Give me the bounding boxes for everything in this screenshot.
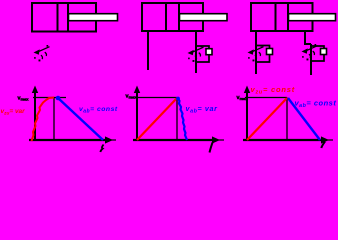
graph 1 vertical reference line: [53, 98, 55, 141]
cylinder C1 piston rod: [69, 14, 118, 21]
cylinder C2 body: [142, 3, 203, 31]
graph 1 blue deceleration line: [56, 96, 103, 140]
flow control valve V3 check square: [321, 49, 327, 55]
flow control valve V2 bypass loop: [256, 46, 270, 63]
cylinder C3 body: [251, 3, 313, 31]
graph 2 y-axis: [134, 86, 140, 142]
flow control valve V2 throttle arrow: [248, 45, 264, 61]
line from C3 right port with jog: [305, 31, 311, 44]
graph 2 vmax reference line: [135, 97, 177, 99]
graph 3 vmax reference line: [245, 97, 287, 99]
graph 2 vertical reference line: [176, 98, 178, 141]
graph 3 blue deceleration line: [288, 98, 320, 140]
graph 3 vertical reference line: [286, 98, 288, 141]
graph 2 red velocity ramp: [137, 98, 177, 140]
graph 1 red acceleration curve: [32, 98, 55, 142]
line from C2 left port: [147, 31, 149, 70]
svg-text:vmax: vmax: [237, 95, 249, 101]
cylinder C3 piston: [276, 3, 289, 31]
graph 1 x-axis: [29, 136, 116, 143]
cylinder C1 body: [32, 3, 96, 32]
cylinder C3 piston rod: [289, 14, 336, 21]
graph 2 blue wiggly decay: [176, 97, 187, 140]
graph 3 red velocity ramp: [247, 98, 287, 140]
flow control valve V2 check square: [267, 49, 273, 55]
flow control valve V3 throttle arrow: [302, 44, 318, 60]
line from C2 right port: [195, 31, 197, 73]
flow control valve V1 throttle arrow: [188, 46, 204, 62]
flow control valve V1 bypass loop: [196, 46, 209, 62]
svg-text:vmax: vmax: [126, 94, 138, 100]
throttle arrow symbol (section 1): [34, 45, 50, 61]
graph 1 y-axis: [32, 86, 38, 142]
line from C3 left port: [255, 31, 257, 74]
flow control valve V3 main line: [310, 44, 312, 75]
graph 3 x-axis: [243, 136, 333, 143]
graph 3 x-axis label s: [321, 142, 325, 149]
graph 3 y-axis: [244, 86, 250, 142]
cylinder C2 piston: [166, 3, 179, 31]
cylinder C2 piston rod: [180, 14, 228, 21]
svg-text:vmax: vmax: [18, 96, 30, 102]
graph 1 x-axis label s: [100, 145, 103, 153]
flow control valve V1 check square: [206, 49, 212, 55]
graph 1 vmax reference line: [33, 97, 66, 99]
flow control valve V3 bypass loop: [311, 46, 324, 61]
cylinder C1 piston: [58, 3, 69, 32]
graph 2 x-axis label s: [210, 143, 213, 153]
graph 2 x-axis: [133, 136, 224, 143]
